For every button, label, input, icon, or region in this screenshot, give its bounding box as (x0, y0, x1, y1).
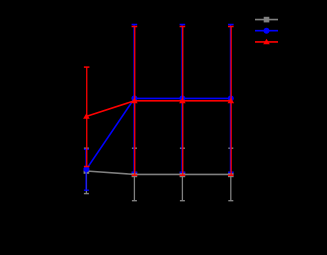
gray error bar col4 (228, 148, 233, 201)
red error bar col4 (228, 27, 234, 176)
blue marker p3 (179, 95, 185, 101)
gray marker p3 (180, 172, 186, 178)
blue error bar col2 (132, 25, 138, 173)
gray marker p4 (228, 172, 234, 178)
gray marker p1 (84, 168, 90, 174)
legend blue entry (255, 28, 278, 34)
gray error bar col2 (132, 148, 137, 201)
blue marker p1 (83, 166, 89, 172)
legend red entry (255, 39, 278, 45)
gray marker p2 (132, 172, 138, 178)
blue error bar col4 (228, 25, 234, 173)
blue error bar col3 (180, 25, 186, 173)
blue marker p2 (131, 95, 137, 101)
blue marker p4 (228, 95, 234, 101)
red marker p4 (228, 98, 235, 104)
red marker p3 (179, 98, 186, 104)
red series line (86, 101, 230, 117)
gray series line (86, 171, 230, 174)
red marker p1 (83, 113, 90, 119)
gray error bar col1 (84, 148, 89, 193)
red marker p2 (131, 98, 138, 104)
blue series line (86, 98, 230, 169)
legend gray entry (255, 17, 278, 23)
blue error bar col1 (84, 149, 89, 190)
gray error bar col3 (180, 148, 185, 201)
red error bar col1 (84, 67, 90, 166)
red error bar col3 (180, 27, 186, 176)
red error bar col2 (132, 27, 138, 176)
